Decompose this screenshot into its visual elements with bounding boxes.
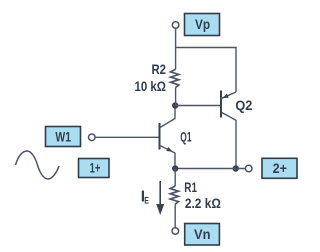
Q2 collector lead [222,113,236,121]
svg-text:10 kΩ: 10 kΩ [135,78,167,94]
terminal W1 [89,134,96,141]
svg-text:Vn: Vn [194,226,211,242]
svg-text:E: E [144,195,149,206]
wire Vp terminal down to R2 [175,28,177,69]
terminal 2+ [245,165,252,172]
svg-text:Vp: Vp [195,16,210,32]
wire node to Q2 base [175,105,220,107]
wire Vp rail to Q2 emitter [176,48,236,93]
resistor R2 [135,61,179,105]
label 1+ [79,159,110,178]
node dot: Q1 emitter / R1 [172,165,178,171]
Q1 emitter lead with arrow [160,146,175,154]
label 2+ [262,158,297,178]
Q1 base bar [159,123,161,150]
svg-text:Q2: Q2 [235,97,252,113]
label W1 [46,127,81,147]
current arrow IE [141,181,164,215]
Q2 emitter lead with arrow [221,92,236,99]
svg-text:1+: 1+ [90,160,101,176]
svg-text:R2: R2 [152,61,167,77]
wire Q1 emitter node to 2+ terminal [175,168,245,170]
wire emitter node down to R1 [174,169,176,187]
terminal Vp [172,22,179,29]
Q2 base bar [220,91,222,118]
resistor R1 [170,179,221,228]
wire W1 terminal to Q1 base [95,136,159,138]
svg-text:W1: W1 [55,128,71,144]
svg-text:Q1: Q1 [180,129,191,145]
Q1 collector lead [160,119,175,128]
sine wave source symbol [16,151,60,179]
transistor Q2 (pnp) [221,91,253,169]
label Vn [185,224,220,246]
transistor Q1 (npn) [160,106,192,169]
label Vp [185,14,220,36]
svg-text:2.2 kΩ: 2.2 kΩ [185,195,221,211]
node dot: Q2 collector / output [233,165,239,171]
node dot: R2 / Q1 collector / Q2 base [172,102,178,108]
svg-text:2+: 2+ [273,160,287,176]
svg-text:R1: R1 [184,179,197,195]
terminal Vn [172,228,179,235]
